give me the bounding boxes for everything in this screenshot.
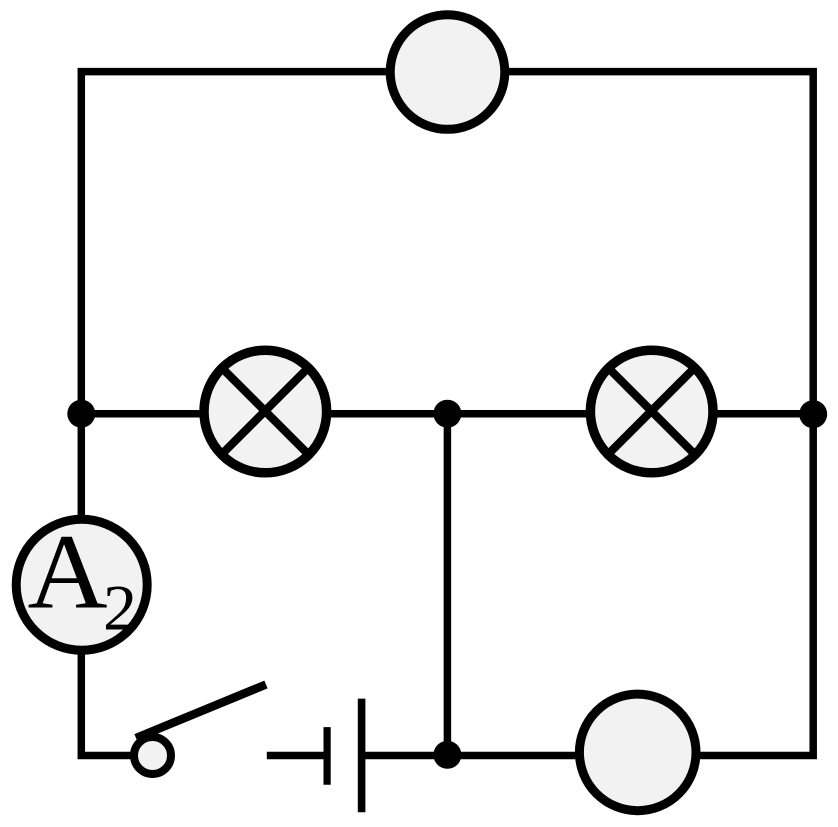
svg-text:A: A bbox=[28, 514, 108, 632]
svg-text:2: 2 bbox=[103, 573, 137, 645]
